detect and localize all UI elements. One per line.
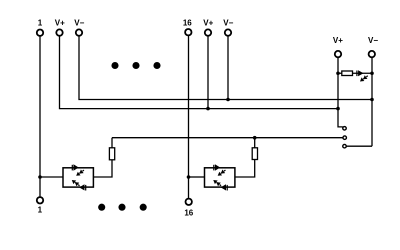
junction terminal16/opto2 [187,175,191,179]
terminal 16 top circle [185,29,191,35]
LED D1b light arrows [73,181,80,186]
junction V- bus end [370,98,374,102]
opto box 1 [63,168,93,187]
wire opto box 1 to resistor R1 [93,160,112,177]
svg-text:V−: V− [223,19,233,28]
LED D1a light arrows [77,170,84,175]
LED D2b in box 2 (points left) [221,184,228,190]
resistor R1 [109,148,114,160]
wire V- right vertical [371,58,373,147]
svg-text:V+: V+ [333,36,343,45]
junction R2 on common bus [253,136,257,140]
wire resistor R1 to common bus [111,138,113,148]
jumper contact bottom [343,144,347,148]
wire jumper bottom contact to V- vertical [346,145,372,147]
wire opto box 2 to resistor R2 [235,160,255,178]
wire V- mid vertical [227,36,229,99]
opto box 2 [205,168,235,187]
terminal 1 bottom circle [37,197,43,203]
svg-text:1: 1 [38,19,43,28]
wire terminal1 to opto box 1 [40,176,63,178]
resistor R3 [342,71,353,76]
LED D3 (points right) [356,70,363,76]
ellipsis dots top [111,62,160,69]
LED D2a light arrows [219,170,226,175]
wire resistor R3 to LED D3 to V- right [353,72,373,74]
terminal V+ top circle [56,29,62,35]
LED D1a in box 1 (points right) [72,164,79,171]
LED D3 light arrows [361,76,368,81]
junction V- mid on V- bus [226,98,230,102]
resistor R2 [252,148,257,160]
LED D2b light arrows [214,181,221,186]
terminal V- right circle [369,51,375,57]
terminal V- mid circle [225,29,231,35]
wire resistor R2 to common bus [254,138,256,148]
svg-text:V−: V− [74,19,84,28]
svg-text:1: 1 [38,205,43,214]
terminal 16 bottom circle [186,199,192,205]
wire V+ left vertical and V+ bus horizontal [60,36,339,108]
svg-text:V−: V− [368,36,378,45]
wire V- left vertical and V- bus horizontal [79,36,372,99]
svg-text:16: 16 [183,18,192,27]
LED D1b in box 1 (points left) [79,184,86,190]
junction V+ mid on V+ bus [206,107,210,111]
jumper contact middle [343,136,347,140]
jumper contact top [343,127,347,131]
junction V- right at LED branch [370,71,374,75]
svg-text:V+: V+ [203,19,213,28]
wire V+ mid vertical [207,36,209,108]
wire terminal16 vertical [188,36,190,198]
terminal 1 top circle [37,30,43,36]
wire V+ right vertical with jog to jumper top contact [338,58,343,127]
svg-text:V+: V+ [55,19,65,28]
terminal V+ mid circle [205,29,211,35]
junction V+ right at LED branch [336,71,340,75]
junction terminal1/opto1 [38,175,42,179]
svg-text:16: 16 [184,209,193,218]
junction V+ bus end [336,107,340,111]
wire terminal1 vertical [39,36,41,196]
terminal V+ right circle [335,51,341,57]
wire terminal16 to opto box 2 [189,176,205,178]
wire common bus horizontal to jumper middle contact [112,137,343,139]
LED D2a in box 2 (points right) [213,164,220,171]
terminal V- top circle [76,29,82,35]
wire V+ right to resistor R3 [338,72,342,74]
ellipsis dots bottom [98,204,147,211]
